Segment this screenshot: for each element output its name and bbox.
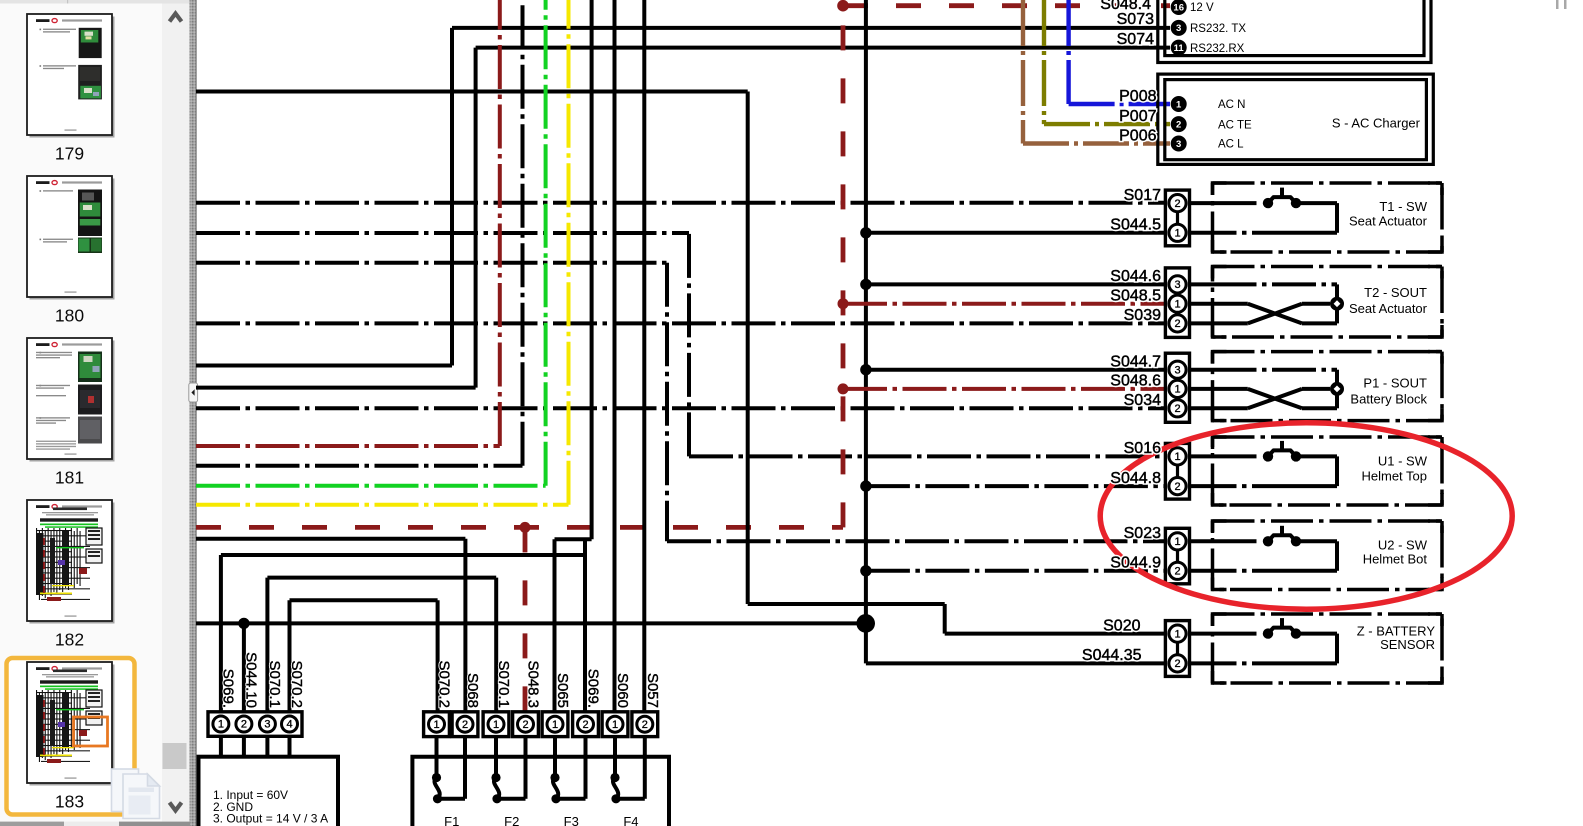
thumbnail page shadow — [30, 503, 115, 624]
svg-text:S - AC Charger: S - AC Charger — [1332, 115, 1421, 130]
fuse F1 — [435, 757, 439, 777]
wire S044.5 to T1 pin1 — [866, 231, 1166, 235]
svg-text:1: 1 — [1176, 99, 1182, 110]
wire S069 group2 vertical — [583, 539, 587, 712]
svg-text:F4: F4 — [623, 814, 638, 826]
svg-text:S070.2: S070.2 — [436, 660, 453, 708]
wire green horizontal — [196, 484, 546, 488]
thumbnail page — [27, 338, 112, 459]
connector T2 (3-pin) — [1165, 268, 1189, 338]
wire ground bus horizontal — [196, 621, 866, 625]
svg-text:2: 2 — [1174, 566, 1180, 578]
svg-text:2: 2 — [1174, 318, 1180, 330]
wire S073 vertical — [450, 28, 454, 366]
wire S070.1 horizontal — [267, 576, 496, 580]
svg-text:1: 1 — [1174, 451, 1180, 463]
svg-text:F2: F2 — [504, 814, 519, 826]
wire S074 vertical — [474, 48, 478, 388]
junction red dot S048.3 — [520, 522, 531, 533]
svg-text:P008: P008 — [1119, 88, 1156, 105]
wire black dash-dot horizontal — [196, 464, 523, 468]
svg-text:3. Output = 14 V / 3 A: 3. Output = 14 V / 3 A — [213, 812, 328, 826]
svg-text:182: 182 — [55, 630, 84, 650]
svg-text:11: 11 — [1174, 43, 1185, 54]
svg-text:3: 3 — [1176, 23, 1181, 34]
svg-text:Battery Block: Battery Block — [1350, 392, 1427, 407]
svg-text:2: 2 — [1174, 481, 1180, 493]
wire S016 vertical — [687, 233, 691, 456]
wire S044.8 to U1 pin2 — [866, 484, 1166, 488]
svg-text:12 V: 12 V — [1190, 2, 1214, 14]
switch symbol U2 helmet bottom switch — [1263, 536, 1273, 546]
pin 3 RS232.TX — [1171, 20, 1187, 36]
svg-text:183: 183 — [55, 792, 84, 812]
svg-text:S044.10: S044.10 — [243, 652, 260, 708]
junction red dot S048.4 — [837, 0, 849, 12]
svg-text:T1 - SW: T1 - SW — [1379, 199, 1427, 214]
thumbnail page — [27, 662, 112, 783]
pin 11 RS232.RX — [1171, 40, 1187, 56]
svg-text:16: 16 — [1173, 2, 1184, 13]
svg-text:2: 2 — [1174, 658, 1180, 670]
connector U2 (2-pin) — [1165, 528, 1189, 584]
wire S044.6 to T2 pin3 — [866, 282, 1166, 286]
svg-text:2: 2 — [462, 719, 468, 731]
svg-text:Helmet Bot: Helmet Bot — [1363, 552, 1428, 567]
component box U2 helmet bottom switch — [1213, 521, 1443, 590]
svg-text:U1 - SW: U1 - SW — [1378, 453, 1428, 468]
wire S048.3 dashed vertical to fuse connector — [523, 527, 528, 711]
wire S023 to U2 pin1 — [667, 539, 1166, 543]
svg-text:S044.9: S044.9 — [1110, 555, 1161, 572]
wire S074 to RS232.RX pin — [476, 46, 1170, 50]
wire P007 olive vertical — [1042, 0, 1046, 124]
fuse F3 — [553, 757, 557, 777]
stubs from 4-pin connector into converter box — [219, 736, 223, 756]
scrollbar down arrow — [170, 803, 182, 811]
junction dot S044.8 — [860, 480, 871, 491]
thumbnail page — [27, 176, 112, 297]
svg-text:S060: S060 — [614, 673, 631, 708]
wire S034 to P1 pin2 — [196, 406, 1166, 410]
connector block 4-pin (DC converter input) — [208, 712, 302, 737]
wire S048 dashed bus vertical — [841, 6, 846, 528]
viewer chrome: top tab strip — [0, 0, 197, 4]
wire converter pin4 vertical — [288, 600, 292, 712]
svg-text:S023: S023 — [1124, 525, 1161, 542]
svg-text:F3: F3 — [564, 814, 579, 826]
connector S070.1 (fuse row) — [483, 712, 509, 737]
svg-text:RS232. TX: RS232. TX — [1190, 23, 1246, 35]
svg-text:1: 1 — [552, 719, 558, 731]
wire S070.2 horizontal — [290, 598, 438, 602]
junction red dot S048.5 — [838, 298, 849, 309]
scrollbar up arrow — [170, 14, 182, 22]
wire P006 brown to AC L pin — [1023, 141, 1170, 145]
connector S060 (fuse row) — [602, 712, 628, 737]
wire S074 lower horizontal — [196, 386, 476, 390]
connector T1 (2-pin) — [1165, 190, 1189, 246]
crossover X T2 seat actuator out — [1248, 304, 1302, 324]
component box T1 switch — [1213, 183, 1443, 252]
svg-text:1: 1 — [1174, 628, 1180, 640]
svg-text:Seat Actuator: Seat Actuator — [1349, 301, 1428, 316]
wire S073 lower horizontal — [196, 364, 452, 368]
svg-text:Helmet Top: Helmet Top — [1361, 469, 1427, 484]
wire S048 branch dark red vertical — [498, 0, 502, 446]
wire S020 to Z pin1 — [945, 632, 1166, 636]
svg-text:S074: S074 — [1117, 31, 1154, 48]
svg-text:S016: S016 — [1124, 440, 1161, 457]
svg-text:S068: S068 — [464, 673, 481, 708]
S - AC Charger box — [1158, 74, 1434, 164]
pin 16 12V — [1171, 0, 1187, 15]
svg-text:3: 3 — [264, 719, 270, 731]
svg-text:S070.1: S070.1 — [266, 660, 283, 708]
wire S020 jog vertical — [943, 604, 947, 634]
connector U1 (2-pin) — [1165, 443, 1189, 499]
connector box U - controller (top, cut off) — [1158, 0, 1431, 63]
svg-text:1: 1 — [1174, 384, 1180, 396]
wire S070.1 vertical to fuse connector — [494, 578, 498, 712]
svg-text:179: 179 — [55, 144, 84, 164]
wire S044.7 to P1 pin3 — [866, 368, 1166, 372]
wire S023 left segment — [196, 261, 667, 265]
fuse box — [412, 757, 669, 826]
junction dot S044.10 / bus — [238, 618, 249, 629]
svg-text:3: 3 — [1176, 139, 1181, 150]
wire S068 vertical — [463, 539, 467, 712]
svg-text:P006: P006 — [1119, 127, 1156, 144]
wire S048 branch dark red horizontal — [196, 444, 500, 448]
wire yellow vertical — [567, 0, 571, 505]
component box P1 battery block out — [1213, 352, 1443, 421]
svg-text:S044.5: S044.5 — [1110, 217, 1161, 234]
svg-text:2: 2 — [582, 719, 588, 731]
wire green vertical — [544, 0, 548, 486]
wire S020 vertical — [746, 92, 750, 605]
wire S020 segment top horizontal — [196, 90, 748, 94]
wire S048.6 to P1 pin1 — [843, 387, 1166, 391]
wire S060 vertical — [613, 0, 617, 712]
wire S048.4 to 12V pin — [843, 3, 1170, 8]
pin 2 AC TE — [1171, 116, 1187, 132]
wire converter pin3 vertical — [265, 578, 269, 712]
svg-text:S069.: S069. — [585, 669, 602, 708]
component box U1 helmet top switch — [1213, 437, 1443, 505]
svg-text:1: 1 — [1174, 299, 1180, 311]
svg-text:P1 - SOUT: P1 - SOUT — [1363, 376, 1427, 391]
wire S057 vertical — [642, 0, 646, 712]
drag pages ghost icon — [112, 769, 160, 819]
wire S065 jog horizontal — [555, 537, 592, 541]
scrollbar track — [162, 4, 190, 822]
connector S048.3 (fuse row) — [513, 712, 539, 737]
wire S016 to U1 pin1 — [689, 454, 1166, 458]
svg-text:2: 2 — [1174, 198, 1180, 210]
svg-text:2: 2 — [1174, 403, 1180, 415]
component box T2 seat actuator out — [1213, 267, 1443, 338]
svg-text:SENSOR: SENSOR — [1380, 637, 1435, 652]
wire P008 blue to AC N pin — [1069, 102, 1170, 106]
svg-text:S034: S034 — [1124, 392, 1161, 409]
thumbnail page shadow — [30, 179, 115, 300]
wire converter pin1 vertical — [219, 555, 223, 712]
connector S069. (fuse row) — [573, 712, 599, 737]
wire S065 feed vertical — [590, 0, 594, 539]
wire S073 to RS232.TX pin — [452, 26, 1170, 30]
svg-text:S044.8: S044.8 — [1110, 470, 1161, 487]
svg-text:AC L: AC L — [1218, 139, 1244, 151]
wire S023 vertical — [665, 263, 669, 542]
sidebar background — [0, 4, 162, 826]
svg-text:3: 3 — [1174, 279, 1180, 291]
svg-text:AC N: AC N — [1218, 99, 1245, 111]
red highlight ellipse annotation — [1100, 423, 1512, 609]
crossover X P1 battery block out — [1248, 389, 1302, 408]
thumbnail page shadow — [30, 665, 115, 786]
svg-text:S017: S017 — [1124, 187, 1161, 204]
svg-text:1: 1 — [1174, 228, 1180, 240]
svg-text:F1: F1 — [444, 814, 459, 826]
svg-text:S044.6: S044.6 — [1110, 268, 1161, 285]
junction dot S044.7 — [860, 364, 871, 375]
svg-text:2: 2 — [522, 719, 528, 731]
junction dot S044.5 — [860, 227, 871, 238]
wire S065 vertical — [553, 539, 557, 712]
connector Z (2-pin) — [1165, 621, 1189, 677]
wire P007 olive to AC TE pin — [1044, 122, 1170, 126]
svg-text:1: 1 — [433, 719, 439, 731]
wire S044.9 to U2 pin2 — [866, 569, 1166, 573]
junction dot S044.6 — [860, 279, 871, 290]
wire S044 bus vertical — [864, 0, 868, 663]
svg-text:Seat Actuator: Seat Actuator — [1349, 214, 1428, 229]
wire S039 to T2 pin2 — [196, 321, 1166, 325]
svg-text:S057: S057 — [644, 673, 661, 708]
pin 1 AC N — [1171, 96, 1187, 112]
svg-text:S069.: S069. — [220, 669, 237, 708]
wire black dash-dot vertical — [521, 0, 525, 466]
wire P006 brown vertical — [1021, 0, 1025, 144]
connector S070.2 (fuse row) — [424, 712, 450, 737]
wire S017 to T1 pin2 — [196, 201, 1166, 205]
node diamond T2 seat actuator out — [1330, 297, 1344, 311]
svg-text:S044.35: S044.35 — [1082, 647, 1142, 664]
selection highlight for page 183 — [7, 658, 135, 815]
wire S020 middle horizontal — [748, 602, 945, 606]
connector S057 (fuse row) — [632, 712, 658, 737]
svg-text:T2 - SOUT: T2 - SOUT — [1364, 285, 1427, 300]
junction big dot bus — [856, 614, 875, 633]
svg-text:180: 180 — [55, 306, 84, 326]
scrollbar thumb — [163, 743, 187, 769]
svg-text:181: 181 — [55, 468, 84, 488]
svg-text:S048.3: S048.3 — [525, 660, 542, 708]
svg-text:2: 2 — [241, 719, 247, 731]
wire S069 horizontal from converter pin1 — [221, 553, 585, 557]
svg-text:1: 1 — [218, 719, 224, 731]
fuse F2 — [494, 757, 498, 777]
wire S044.35 to Z pin2 — [866, 661, 1166, 665]
svg-text:1: 1 — [1174, 536, 1180, 548]
svg-text:2: 2 — [1176, 119, 1181, 130]
svg-text:AC TE: AC TE — [1218, 119, 1252, 131]
svg-text:2: 2 — [642, 719, 648, 731]
svg-text:1: 1 — [493, 719, 499, 731]
svg-text:RS232.RX: RS232.RX — [1190, 43, 1245, 55]
junction red dot S048.6 — [838, 383, 849, 394]
switch symbol U1 helmet top switch — [1263, 451, 1273, 461]
thumbnail page shadow — [30, 17, 115, 138]
svg-text:S065: S065 — [554, 673, 571, 708]
svg-text:S020: S020 — [1103, 617, 1140, 634]
wire P008 blue vertical — [1066, 0, 1070, 104]
wire S070.2 vertical to fuse connector — [436, 600, 440, 712]
wire yellow horizontal — [196, 503, 569, 507]
svg-text:P007: P007 — [1119, 108, 1156, 125]
component box Z battery sensor switch — [1213, 614, 1443, 683]
svg-text:S044.7: S044.7 — [1110, 354, 1161, 371]
svg-text:U2 - SW: U2 - SW — [1378, 537, 1428, 552]
DC converter box — [199, 757, 339, 826]
junction dot S044.9 — [860, 565, 871, 576]
pin 3 AC L — [1171, 136, 1187, 152]
wire S044.10 converter pin2 vertical — [242, 623, 246, 711]
sidebar bottom horizontal scrollbar — [0, 822, 190, 826]
splitter handle — [189, 383, 198, 402]
svg-text:4: 4 — [286, 719, 292, 731]
connector S065 (fuse row) — [542, 712, 568, 737]
svg-text:S039: S039 — [1124, 307, 1161, 324]
svg-text:S073: S073 — [1117, 11, 1154, 28]
wire S048 dashed bus horizontal — [196, 525, 843, 530]
svg-text:1: 1 — [612, 719, 618, 731]
node diamond P1 battery block out — [1330, 382, 1344, 396]
connector S068 (fuse row) — [452, 712, 478, 737]
wire S068 horizontal — [196, 537, 465, 541]
svg-text:3: 3 — [1174, 365, 1180, 377]
switch symbol T1 switch — [1263, 198, 1273, 208]
fuse F4 — [613, 757, 617, 777]
switch symbol Z battery sensor switch — [1263, 628, 1273, 638]
svg-text:S070.1: S070.1 — [495, 660, 512, 708]
thumbnail page — [27, 500, 112, 621]
connector P1 (3-pin) — [1165, 353, 1189, 422]
svg-text:S048.6: S048.6 — [1110, 373, 1161, 390]
svg-text:S048.5: S048.5 — [1110, 288, 1161, 305]
wire S016 left segment — [196, 231, 689, 235]
svg-text:S070.2: S070.2 — [288, 660, 305, 708]
wire S048.5 to T2 pin1 — [843, 302, 1166, 306]
thumbnail page — [27, 14, 112, 135]
thumbnail page shadow — [30, 341, 115, 462]
